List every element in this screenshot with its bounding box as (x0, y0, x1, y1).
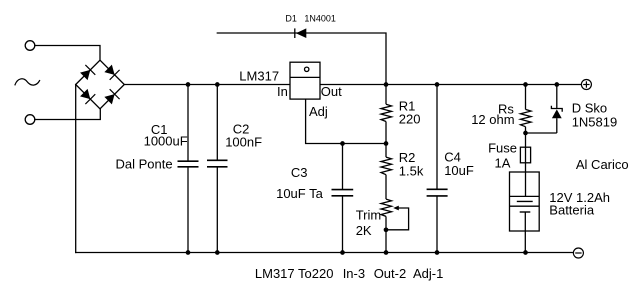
svg-text:D1 1N4001: D1 1N4001 (285, 14, 336, 24)
node trim bottom (384, 250, 389, 255)
wiper arrow and loop (386, 208, 409, 230)
svg-text:Fuse: Fuse (488, 140, 517, 155)
svg-text:1N5819: 1N5819 (572, 115, 618, 130)
wire top bypass loop with D1 (217, 33, 386, 85)
svg-text:Trim: Trim (356, 208, 382, 223)
node trim wiper (384, 227, 389, 232)
node battery bottom (523, 250, 528, 255)
svg-text:Out: Out (321, 84, 342, 99)
node D Sko bottom (523, 131, 528, 136)
svg-text:1.5k: 1.5k (399, 164, 424, 179)
svg-text:10uF: 10uF (444, 163, 474, 178)
svg-text:In: In (277, 84, 288, 99)
svg-text:Adj-1: Adj-1 (413, 266, 443, 281)
node C2 bottom (215, 250, 220, 255)
node R1 top (384, 82, 389, 87)
wire AC bottom to bridge bottom corner (35, 109, 101, 120)
output terminal positive (581, 80, 591, 90)
svg-text:Out-2: Out-2 (374, 266, 407, 281)
main positive rail (bridge to LM317 In) (124, 84, 290, 86)
svg-text:10uF Ta: 10uF Ta (276, 186, 324, 201)
node Adj C3 (340, 141, 345, 146)
svg-text:1000uF: 1000uF (144, 134, 188, 149)
trimmer potentiometer Trim 2K (381, 199, 409, 252)
AC terminal top (25, 41, 35, 51)
resistor R2 (381, 157, 392, 199)
diode D1 1N4001 (295, 28, 307, 38)
svg-text:12 ohm: 12 ohm (471, 112, 514, 127)
wire LM317 Adj to divider junction (306, 99, 386, 143)
capacitor C1 (178, 85, 199, 253)
node C4 top (435, 82, 440, 87)
svg-text:C3: C3 (291, 165, 308, 180)
bridge diode top-right (104, 65, 119, 80)
svg-text:Dal Ponte: Dal Ponte (116, 156, 173, 171)
svg-text:LM317 To220: LM317 To220 (255, 266, 334, 281)
AC terminal bottom (25, 115, 35, 125)
node Rs top (523, 82, 528, 87)
svg-text:Al Carico: Al Carico (576, 157, 629, 172)
AC sine symbol (15, 79, 40, 85)
wire bridge negative corner down to bottom rail (75, 85, 77, 253)
node C2 top (215, 82, 220, 87)
svg-text:Adj: Adj (309, 104, 328, 119)
battery 12V 1.2Ah box (510, 172, 540, 253)
resistor Rs (521, 85, 532, 148)
output terminal negative (573, 248, 583, 258)
bridge diode bottom-right (104, 89, 119, 104)
main positive rail (LM317 Out to + terminal) (320, 84, 581, 86)
svg-text:Batteria: Batteria (549, 203, 595, 218)
node C4 bottom (435, 250, 440, 255)
node Adj R1-R2 (384, 141, 389, 146)
resistor R1 (381, 85, 392, 158)
fuse F1 1A (520, 147, 530, 196)
node C1 bottom (186, 250, 191, 255)
bridge diode bottom-left (80, 89, 95, 104)
battery short plate (520, 211, 531, 213)
schottky cathode bar with hooks (551, 106, 562, 112)
node D Sko top (554, 82, 559, 87)
svg-text:2K: 2K (356, 223, 372, 238)
node C3 bottom (340, 250, 345, 255)
regulator U1 LM317 body (290, 62, 320, 99)
svg-text:In-3: In-3 (343, 266, 365, 281)
svg-text:LM317: LM317 (239, 68, 279, 83)
battery long plate (517, 200, 533, 202)
capacitor C4 (427, 85, 448, 253)
svg-text:D Sko: D Sko (572, 101, 607, 116)
capacitor C2 (207, 85, 228, 253)
svg-text:220: 220 (399, 112, 421, 127)
svg-text:100nF: 100nF (225, 134, 262, 149)
schottky diode D Sko 1N5819 (526, 85, 563, 134)
bridge rectifier diamond (76, 60, 125, 109)
capacitor C3 (332, 144, 354, 253)
wire AC top to bridge top corner (35, 46, 100, 61)
bridge diode top-left (80, 65, 95, 80)
node C1 top (186, 82, 191, 87)
svg-text:1A: 1A (495, 155, 511, 170)
bottom negative rail (76, 252, 574, 254)
